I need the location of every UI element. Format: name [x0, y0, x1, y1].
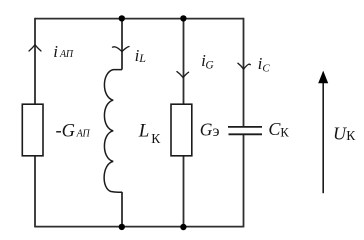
label CK	[268, 119, 289, 140]
voltage arrow UK shaft	[322, 83, 324, 194]
wire bottom bus	[35, 226, 244, 228]
junction top node G	[180, 15, 186, 21]
junction top node L	[119, 15, 125, 21]
capacitor CK top plate	[228, 126, 262, 128]
svg-text:АП: АП	[59, 49, 74, 60]
wire inductor branch lower	[121, 192, 123, 227]
svg-text:G: G	[205, 60, 214, 72]
capacitor CK bottom plate	[229, 133, 263, 135]
svg-text:L: L	[138, 121, 150, 142]
svg-text:К: К	[151, 131, 161, 146]
svg-text:L: L	[138, 51, 146, 65]
current arrow iAP (up)	[29, 45, 41, 51]
label iC	[258, 54, 271, 75]
label GE	[200, 120, 220, 141]
current arrow iG (down)	[177, 72, 189, 78]
wire inductor branch upper	[121, 19, 123, 70]
wire top bus	[35, 18, 244, 20]
label LK	[138, 121, 162, 146]
svg-text:C: C	[262, 63, 270, 75]
wire left branch lower	[34, 156, 36, 228]
label -GAP	[56, 121, 91, 141]
inductor LK coil	[104, 70, 122, 193]
junction bottom node L	[119, 224, 125, 230]
wire G branch lower	[183, 156, 185, 227]
svg-text:э: э	[213, 123, 220, 140]
label UK	[333, 123, 356, 143]
current arrow iC (down)	[238, 63, 251, 69]
voltage arrow UK head	[318, 71, 328, 84]
label iAP	[53, 42, 74, 61]
svg-text:-G: -G	[56, 121, 76, 141]
resistor -GAP body	[22, 104, 43, 156]
svg-text:К: К	[280, 126, 289, 140]
wire G branch upper	[183, 19, 185, 105]
svg-text:U: U	[333, 123, 347, 143]
svg-text:К: К	[346, 128, 356, 143]
label iG	[201, 51, 214, 71]
wire capacitor branch lower	[243, 135, 245, 228]
svg-text:i: i	[53, 42, 58, 61]
svg-text:АП: АП	[76, 129, 91, 140]
label iL	[135, 46, 147, 65]
current arrow iL (down)	[113, 47, 130, 52]
conductance GE body	[171, 104, 192, 156]
wire capacitor branch upper	[243, 18, 245, 126]
junction bottom node G	[180, 224, 186, 230]
wire left branch upper	[34, 18, 36, 104]
svg-text:G: G	[200, 120, 213, 140]
